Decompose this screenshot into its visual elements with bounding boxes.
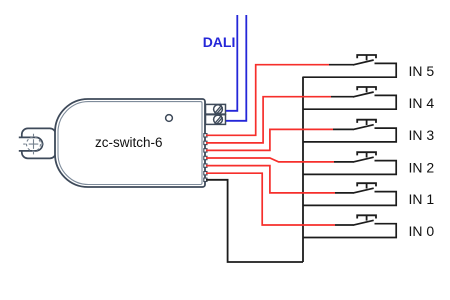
- device body zc-switch-6: [55, 99, 205, 187]
- svg-text:zc-switch-6: zc-switch-6: [95, 135, 163, 150]
- common bus (black): [302, 77, 304, 262]
- svg-text:IN 3: IN 3: [409, 127, 435, 143]
- svg-text:IN 5: IN 5: [409, 63, 435, 79]
- wire IN1 (red): [206, 166, 335, 193]
- switch S2: [303, 152, 397, 174]
- DALI screw terminal B: [206, 115, 226, 125]
- switch S3: [303, 120, 397, 142]
- svg-text:IN 4: IN 4: [409, 95, 435, 111]
- DALI screw terminal A: [206, 104, 226, 114]
- switch S4: [303, 87, 397, 109]
- svg-text:DALI: DALI: [203, 34, 236, 50]
- svg-text:IN 1: IN 1: [409, 191, 435, 207]
- switch S5: [303, 55, 397, 77]
- wire DALI 2 (blue): [226, 15, 246, 121]
- wire IN5 (red): [206, 65, 329, 136]
- svg-text:IN 2: IN 2: [409, 159, 435, 175]
- indicator hole: [166, 115, 173, 122]
- wire IN4 (red): [206, 97, 331, 143]
- wire DALI 1 (blue): [226, 15, 237, 111]
- drill hole center mark (dashed): [23, 134, 44, 155]
- wire IN0 (red): [206, 173, 335, 225]
- svg-text:IN 0: IN 0: [409, 223, 435, 239]
- body inner outline: [58, 102, 202, 185]
- switch S0: [303, 215, 397, 237]
- mounting tab: [22, 128, 56, 158]
- switch S1: [303, 183, 397, 205]
- input pin nubs on device edge: [204, 134, 207, 182]
- wire IN2 (red, jog): [206, 158, 334, 162]
- common return wire (black): [206, 180, 303, 262]
- slot cutout in tab: [18, 138, 25, 150]
- wire IN3 (red): [206, 129, 333, 150]
